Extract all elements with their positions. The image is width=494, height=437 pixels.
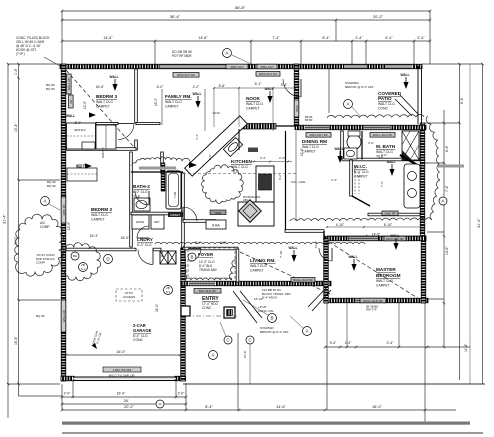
svg-text:36'-4": 36'-4" xyxy=(170,14,181,19)
svg-text:6-BA: 6-BA xyxy=(212,224,220,228)
svg-text:NOOK: NOOK xyxy=(246,96,261,101)
svg-text:WALT CLG: WALT CLG xyxy=(165,100,182,104)
svg-text:11'-4": 11'-4" xyxy=(464,343,468,352)
svg-text:8'-10": 8'-10" xyxy=(384,223,393,227)
svg-text:WALT CLG: WALT CLG xyxy=(96,100,113,104)
svg-text:3'-4": 3'-4" xyxy=(330,341,338,345)
svg-text:6'-4": 6'-4" xyxy=(322,36,330,40)
svg-text:4'-0": 4'-0" xyxy=(381,153,387,157)
svg-text:3'-4": 3'-4" xyxy=(281,83,289,87)
svg-text:7'-4": 7'-4" xyxy=(445,184,449,192)
svg-text:CARPET: CARPET xyxy=(250,268,264,272)
svg-text:14'-6": 14'-6" xyxy=(198,36,208,40)
svg-text:2'-0": 2'-0" xyxy=(178,392,186,396)
svg-text:KITCHEN: KITCHEN xyxy=(231,159,252,164)
svg-text:BQ SF: BQ SF xyxy=(36,314,45,318)
svg-text:A: A xyxy=(211,353,214,358)
svg-text:BRM RF @ 8'-4" AFF: BRM RF @ 8'-4" AFF xyxy=(260,330,289,334)
svg-text:BQ SF: BQ SF xyxy=(47,184,56,188)
svg-text:20'-2": 20'-2" xyxy=(124,405,134,409)
svg-text:7'-4": 7'-4" xyxy=(272,36,280,40)
svg-text:A: A xyxy=(346,102,349,107)
svg-text:26': 26' xyxy=(124,399,129,403)
svg-text:CARPET: CARPET xyxy=(302,149,316,153)
svg-text:A: A xyxy=(158,402,161,407)
svg-text:B: B xyxy=(270,316,273,321)
svg-text:2'-4": 2'-4" xyxy=(260,156,266,160)
svg-text:21'-0": 21'-0" xyxy=(155,304,159,312)
svg-text:8'-4": 8'-4" xyxy=(205,405,213,409)
svg-text:ABV: ABV xyxy=(243,198,248,202)
svg-text:WALL: WALL xyxy=(334,147,343,151)
svg-text:5'-1": 5'-1" xyxy=(195,241,202,245)
svg-text:PATIO: PATIO xyxy=(378,96,392,101)
svg-text:8'-0" CLG: 8'-0" CLG xyxy=(133,190,148,194)
svg-text:WALL: WALL xyxy=(288,246,297,250)
svg-text:BP RF: BP RF xyxy=(305,118,313,122)
svg-text:14'-6": 14'-6" xyxy=(103,36,113,40)
svg-text:16'-0": 16'-0" xyxy=(116,350,126,354)
svg-text:CARPET: CARPET xyxy=(246,106,260,110)
svg-text:WALL: WALL xyxy=(109,75,118,79)
svg-text:1'-4": 1'-4" xyxy=(14,67,18,75)
svg-text:CARPET: CARPET xyxy=(96,104,110,108)
svg-text:3050 RF: 3050 RF xyxy=(62,204,66,216)
svg-text:TRANS ABV: TRANS ABV xyxy=(199,268,218,272)
svg-text:TUB: TUB xyxy=(173,192,177,198)
svg-text:WALL: WALL xyxy=(400,73,409,77)
svg-text:1 BLK-WK RW: 1 BLK-WK RW xyxy=(113,368,132,372)
svg-text:BEDRM 3: BEDRM 3 xyxy=(96,94,117,99)
svg-text:8'-4" ARCH: 8'-4" ARCH xyxy=(262,296,277,300)
svg-text:4'-6": 4'-6" xyxy=(368,141,374,145)
svg-text:RW TYP: RW TYP xyxy=(366,308,377,312)
svg-text:12'-8": 12'-8" xyxy=(67,222,71,230)
svg-text:LIVING RM.: LIVING RM. xyxy=(250,258,276,263)
svg-text:(TYP.): (TYP.) xyxy=(16,52,25,56)
svg-text:WALL RF: WALL RF xyxy=(67,77,71,90)
svg-text:WALT CLG: WALT CLG xyxy=(91,213,108,217)
svg-text:CONC: CONC xyxy=(133,338,144,342)
svg-text:5'-0": 5'-0" xyxy=(75,121,81,125)
svg-text:5-1: 5-1 xyxy=(81,267,85,271)
svg-text:DRY: DRY xyxy=(154,220,160,224)
svg-text:6'-6": 6'-6" xyxy=(219,84,227,88)
svg-text:5-1: 5-1 xyxy=(166,290,170,294)
svg-text:W/O 2 T/O GAR. DR.: W/O 2 T/O GAR. DR. xyxy=(109,374,136,378)
svg-text:2666 RF: 2666 RF xyxy=(384,212,396,216)
svg-text:CABINET: CABINET xyxy=(170,214,181,217)
svg-text:CUL. LINE: CUL. LINE xyxy=(291,180,305,184)
svg-text:BLK-SLD RF: BLK-SLD RF xyxy=(199,289,217,293)
svg-text:DINING RM: DINING RM xyxy=(302,139,327,144)
svg-text:6'-2": 6'-2" xyxy=(278,174,282,180)
svg-text:BEDROOM: BEDROOM xyxy=(376,273,401,278)
svg-text:WALT CLG: WALT CLG xyxy=(246,102,263,106)
svg-text:13'-2": 13'-2" xyxy=(154,98,158,106)
svg-text:3060: 3060 xyxy=(215,211,222,215)
svg-text:WALL-SLD RF: WALL-SLD RF xyxy=(373,133,393,137)
svg-text:12'-0": 12'-0" xyxy=(83,101,87,109)
svg-text:2'-2": 2'-2" xyxy=(193,85,201,89)
svg-text:WALL: WALL xyxy=(76,165,85,169)
svg-text:2'-4": 2'-4" xyxy=(355,36,363,40)
svg-text:14'-6": 14'-6" xyxy=(276,405,286,409)
svg-text:3050 B.P.: 3050 B.P. xyxy=(101,147,105,158)
svg-text:WALL-SLD RF: WALL-SLD RF xyxy=(293,278,313,282)
svg-text:2'-4": 2'-4" xyxy=(387,341,395,345)
svg-text:16'-6": 16'-6" xyxy=(96,85,105,89)
svg-text:CARPET: CARPET xyxy=(376,283,390,287)
svg-text:A: A xyxy=(305,329,308,334)
svg-text:WALT CLG: WALT CLG xyxy=(231,165,248,169)
svg-text:1'-0": 1'-0" xyxy=(345,341,353,345)
svg-text:2'-4": 2'-4" xyxy=(417,36,425,40)
svg-text:6'-4": 6'-4" xyxy=(385,36,393,40)
svg-text:BATH-2: BATH-2 xyxy=(133,184,150,189)
svg-text:GARAGE: GARAGE xyxy=(133,328,152,333)
svg-text:7'-0": 7'-0" xyxy=(353,166,357,172)
svg-text:CARPET: CARPET xyxy=(91,217,105,221)
svg-text:PDT RF MDR: PDT RF MDR xyxy=(172,54,192,58)
svg-text:WALL: WALL xyxy=(264,87,273,91)
svg-text:15'-4": 15'-4" xyxy=(90,234,99,238)
svg-text:WALL: WALL xyxy=(390,234,399,238)
svg-text:3050-SGT RF: 3050-SGT RF xyxy=(259,72,278,76)
svg-text:WALL: WALL xyxy=(192,92,201,96)
svg-text:16'-10": 16'-10" xyxy=(254,297,263,301)
svg-text:CONC: CONC xyxy=(378,106,389,110)
svg-text:3050-SGT RF: 3050-SGT RF xyxy=(177,73,196,77)
svg-text:WALL: WALL xyxy=(386,160,395,164)
svg-text:18'-0": 18'-0" xyxy=(372,405,382,409)
svg-text:18'-0": 18'-0" xyxy=(121,236,130,240)
svg-text:SGD: SGD xyxy=(295,104,299,111)
svg-text:14'-6": 14'-6" xyxy=(372,233,381,237)
svg-text:56'-8": 56'-8" xyxy=(235,5,246,10)
svg-text:WALT CLG: WALT CLG xyxy=(302,145,319,149)
svg-text:WALT CLG: WALT CLG xyxy=(250,264,267,268)
svg-text:11'-0": 11'-0" xyxy=(314,241,318,248)
svg-text:3050-SGT: 3050-SGT xyxy=(260,65,274,69)
svg-text:COMP: COMP xyxy=(40,225,50,229)
svg-text:FAMILY RM.: FAMILY RM. xyxy=(165,94,192,99)
svg-text:15'-4": 15'-4" xyxy=(14,123,18,132)
svg-text:9'-0": 9'-0" xyxy=(208,154,212,160)
svg-text:14'10: 14'10 xyxy=(212,111,220,115)
svg-text:CARPET: CARPET xyxy=(354,174,368,178)
svg-text:WALT CLG: WALT CLG xyxy=(376,279,393,283)
svg-text:BRM RF @ 8'-4" AFF: BRM RF @ 8'-4" AFF xyxy=(345,85,374,89)
svg-text:WALL: WALL xyxy=(348,255,357,259)
svg-text:A: A xyxy=(43,199,46,204)
svg-text:6'-4": 6'-4" xyxy=(445,144,449,152)
svg-text:4'-10": 4'-10" xyxy=(336,223,345,227)
svg-text:8'-0" CLG: 8'-0" CLG xyxy=(137,243,152,247)
svg-text:WALL RF: WALL RF xyxy=(62,309,66,322)
svg-text:7'-6": 7'-6" xyxy=(380,181,384,187)
svg-text:B: B xyxy=(190,255,193,260)
svg-text:WALT CLG: WALT CLG xyxy=(378,102,395,106)
svg-text:A: A xyxy=(441,199,444,204)
svg-text:WALL-SLD RF: WALL-SLD RF xyxy=(363,299,383,303)
svg-text:11'-6": 11'-6" xyxy=(300,148,304,156)
svg-text:CONC: CONC xyxy=(202,306,212,310)
svg-text:COMP: COMP xyxy=(36,261,45,265)
svg-text:TILE: TILE xyxy=(231,169,239,173)
svg-text:2'-4": 2'-4" xyxy=(279,156,285,160)
svg-text:3434-SGT RF: 3434-SGT RF xyxy=(309,133,328,137)
svg-text:6'-1": 6'-1" xyxy=(255,82,263,86)
svg-text:BQ SF: BQ SF xyxy=(46,87,55,91)
svg-text:2'-0": 2'-0" xyxy=(64,392,72,396)
svg-text:RF: RF xyxy=(69,99,73,103)
svg-text:31'-4": 31'-4" xyxy=(3,214,7,224)
svg-text:6'-8": 6'-8" xyxy=(220,241,227,245)
svg-text:FOYER: FOYER xyxy=(198,252,214,257)
svg-text:3050-SGT: 3050-SGT xyxy=(230,65,244,69)
svg-text:4000 B.P.: 4000 B.P. xyxy=(74,128,86,132)
svg-text:TILE: TILE xyxy=(133,194,141,198)
svg-text:CARPET: CARPET xyxy=(165,104,179,108)
svg-text:6'-4": 6'-4" xyxy=(460,96,464,104)
svg-text:MASTER: MASTER xyxy=(376,267,396,272)
svg-text:BEDRM 2: BEDRM 2 xyxy=(91,207,112,212)
svg-text:4'-4": 4'-4" xyxy=(331,178,337,182)
svg-text:WALL: WALL xyxy=(66,114,75,118)
svg-text:31'-4": 31'-4" xyxy=(477,218,481,228)
svg-text:20'-2": 20'-2" xyxy=(373,14,384,19)
svg-text:10'-8": 10'-8" xyxy=(243,350,247,358)
svg-text:LNDRY: LNDRY xyxy=(137,237,154,242)
svg-text:14'-6": 14'-6" xyxy=(445,246,449,255)
svg-text:ACCESS: ACCESS xyxy=(123,295,135,299)
svg-text:16'-4": 16'-4" xyxy=(14,336,18,345)
svg-text:M. BATH: M. BATH xyxy=(376,144,396,149)
svg-text:A: A xyxy=(225,51,228,56)
svg-text:6'-0": 6'-0" xyxy=(157,85,165,89)
svg-text:WASH: WASH xyxy=(136,220,144,224)
svg-text:16'-0": 16'-0" xyxy=(117,392,126,396)
svg-text:7'-10": 7'-10" xyxy=(279,250,283,258)
svg-text:BH: BH xyxy=(73,254,77,258)
svg-text:7'-4": 7'-4" xyxy=(195,134,199,140)
